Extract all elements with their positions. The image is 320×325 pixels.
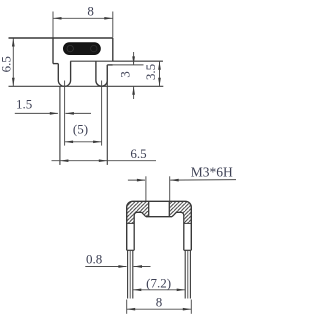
right leg lines [184,250,186,298]
hatched section left [127,201,149,223]
head right edge [112,38,114,61]
right step edge [107,64,113,66]
right outer extension line (6.5 bottom) [106,65,108,165]
dimension 0.8 line and arrows [85,266,126,268]
svg-text:(7.2): (7.2) [146,275,171,290]
left step edge [53,63,58,65]
right slot left wall and bottom arc [96,61,107,86]
dimension 8 (bottom) extension lines [126,300,128,314]
svg-text:8: 8 [87,4,94,19]
svg-text:8: 8 [156,295,163,310]
hatched section right [169,201,191,223]
left slot centerline extension [64,81,66,146]
svg-text:0.8: 0.8 [86,251,102,266]
head top edge [9,37,113,39]
M3*6H dimension arrows [128,179,145,181]
hatch boundary left [127,222,135,224]
slot inner faint circles [67,45,73,51]
dimension 3.5 top extension line [114,60,163,62]
svg-text:6.5: 6.5 [0,56,14,72]
hatch boundary right [184,222,192,224]
dimension 3 top extension line [113,64,144,66]
dimension 8 (top) extension lines [53,12,113,38]
left leg lines [127,250,129,298]
dimension (5) line and arrows [65,141,102,143]
svg-text:6.5: 6.5 [130,146,146,161]
svg-text:(5): (5) [73,122,88,137]
svg-text:1.5: 1.5 [16,97,32,112]
svg-text:M3*6H: M3*6H [191,164,233,179]
boss slant left [142,212,146,216]
right slot centerline extension [101,81,103,146]
boss bottom / hole bottom [146,216,172,218]
left outer extension line (6.5 bottom) [59,86,61,165]
inner wall + ceiling left [134,212,141,250]
dimension 1.5 line and arrows [15,112,58,114]
tapped hole left wall [148,201,150,216]
left slot left wall and bottom arc [58,61,70,86]
tapped hole right wall [168,201,170,216]
dimension 3.5 line and arrows [159,61,161,86]
svg-text:3.5: 3.5 [143,64,158,80]
head left edge [52,38,54,64]
svg-text:3: 3 [117,71,132,78]
wall bottom caps [127,249,135,251]
inner wall + ceiling right [177,212,184,250]
dimension 8 (top) dimension line with arrowheads [53,17,113,19]
dimension 3 arrows (outside) [133,52,135,65]
black slot (obround) [64,43,101,55]
dimension 8 (bottom) line and arrows [127,308,192,310]
dimension (7.2) line and arrows [133,289,185,291]
outer profile [127,201,192,250]
bottom long line (head bottom + extension for 6.5/3/3.5) [9,85,164,87]
inner pocket line y=61 [70,60,163,62]
boss slant right [172,212,176,216]
dimension 6.5 (left) dimension line with arrowheads [12,38,14,86]
dimension 6.5 (bottom) line and arrows [52,160,157,162]
M3*6H extension lines [145,176,147,201]
